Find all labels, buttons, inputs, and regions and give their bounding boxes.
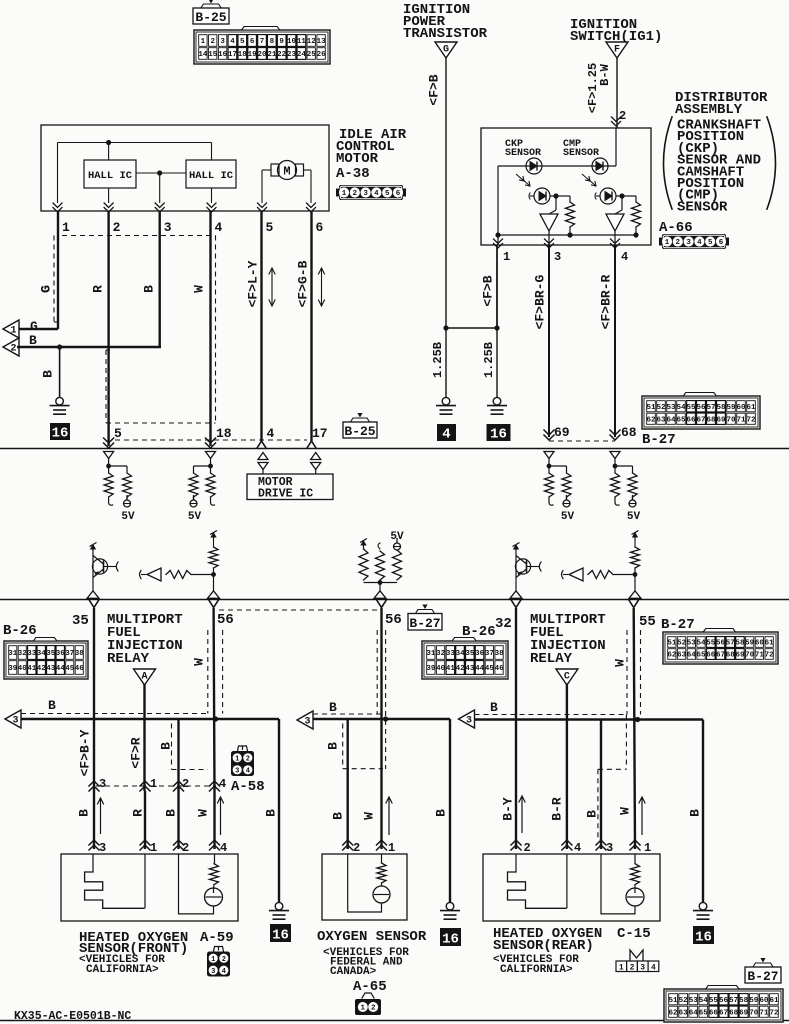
svg-text:60: 60 [736, 404, 746, 412]
svg-text:34: 34 [37, 650, 47, 658]
svg-text:35: 35 [72, 613, 89, 629]
svg-text:2: 2 [353, 841, 360, 855]
svg-text:3: 3 [99, 777, 106, 791]
svg-text:SENSOR: SENSOR [563, 148, 599, 159]
svg-text:51: 51 [646, 404, 656, 412]
svg-text:W: W [196, 809, 211, 817]
svg-text:2: 2 [524, 841, 531, 855]
svg-text:43: 43 [46, 665, 56, 673]
svg-text:B-R: B-R [550, 797, 565, 821]
svg-text:B: B [434, 809, 449, 817]
svg-text:64: 64 [689, 1009, 699, 1017]
svg-text:56: 56 [217, 612, 234, 628]
svg-text:G: G [39, 285, 54, 293]
svg-text:17: 17 [228, 51, 237, 59]
svg-text:4: 4 [697, 239, 702, 247]
svg-text:69: 69 [735, 652, 745, 660]
svg-text:59: 59 [749, 997, 759, 1005]
svg-text:B-W: B-W [598, 63, 612, 85]
svg-text:1: 1 [150, 841, 157, 855]
svg-text:<F>B: <F>B [427, 74, 442, 105]
svg-text:64: 64 [687, 652, 697, 660]
svg-text:20: 20 [257, 51, 267, 59]
svg-text:6: 6 [316, 220, 324, 235]
svg-text:34: 34 [456, 650, 466, 658]
svg-text:B: B [264, 809, 279, 817]
svg-text:26: 26 [317, 51, 327, 59]
svg-text:58: 58 [735, 640, 745, 648]
svg-text:41: 41 [27, 665, 37, 673]
svg-text:61: 61 [765, 640, 775, 648]
svg-text:11: 11 [297, 38, 307, 46]
svg-text:B: B [585, 810, 600, 818]
svg-text:45: 45 [65, 665, 75, 673]
svg-text:62: 62 [646, 416, 656, 424]
svg-text:1: 1 [388, 841, 395, 855]
svg-text:1: 1 [619, 964, 624, 973]
svg-text:C-15: C-15 [617, 926, 651, 942]
svg-text:4: 4 [374, 190, 379, 198]
svg-text:1: 1 [62, 220, 70, 235]
svg-text:RELAY: RELAY [530, 651, 573, 667]
svg-text:58: 58 [739, 997, 749, 1005]
svg-text:72: 72 [746, 416, 756, 424]
svg-text:W: W [613, 659, 628, 667]
svg-text:5: 5 [240, 38, 245, 46]
svg-text:4: 4 [442, 427, 450, 443]
svg-text:SENSOR: SENSOR [677, 199, 728, 215]
svg-text:3: 3 [164, 220, 172, 235]
svg-text:70: 70 [745, 652, 755, 660]
svg-text:3: 3 [12, 716, 18, 727]
svg-text:38: 38 [495, 650, 505, 658]
svg-text:5V: 5V [561, 511, 575, 523]
svg-text:B: B [329, 700, 337, 715]
svg-text:B-Y: B-Y [501, 797, 516, 821]
svg-text:44: 44 [56, 665, 66, 673]
svg-text:B: B [48, 698, 56, 713]
svg-text:5V: 5V [121, 511, 135, 523]
svg-text:51: 51 [667, 640, 677, 648]
svg-text:3: 3 [363, 190, 368, 198]
svg-text:5: 5 [708, 239, 713, 247]
svg-text:B-27: B-27 [409, 616, 440, 631]
svg-text:32: 32 [436, 650, 446, 658]
svg-text:1: 1 [211, 956, 215, 964]
svg-text:56: 56 [696, 404, 706, 412]
svg-text:63: 63 [677, 652, 687, 660]
svg-text:25: 25 [307, 51, 317, 59]
svg-text:37: 37 [65, 650, 74, 658]
svg-text:HALL IC: HALL IC [189, 170, 234, 182]
svg-text:<F>R: <F>R [129, 737, 144, 768]
svg-text:5V: 5V [627, 511, 641, 523]
svg-text:46: 46 [495, 665, 505, 673]
svg-text:71: 71 [755, 652, 765, 660]
svg-text:54: 54 [697, 640, 707, 648]
svg-text:63: 63 [679, 1009, 689, 1017]
svg-text:B-27: B-27 [747, 969, 778, 984]
svg-text:60: 60 [759, 997, 769, 1005]
svg-text:4: 4 [219, 777, 226, 791]
svg-text:58: 58 [716, 404, 726, 412]
svg-text:67: 67 [716, 652, 725, 660]
svg-text:53: 53 [689, 997, 699, 1005]
svg-text:54: 54 [676, 404, 686, 412]
svg-text:B: B [490, 700, 498, 715]
svg-text:A: A [141, 672, 147, 683]
svg-text:DRIVE IC: DRIVE IC [258, 488, 313, 501]
svg-text:62: 62 [669, 1009, 679, 1017]
svg-text:3: 3 [606, 841, 613, 855]
svg-text:A-38: A-38 [336, 166, 370, 182]
svg-text:24: 24 [297, 51, 307, 59]
svg-text:17: 17 [312, 426, 328, 441]
svg-text:70: 70 [749, 1009, 759, 1017]
svg-text:3: 3 [211, 968, 215, 976]
svg-text:B: B [142, 285, 157, 293]
svg-text:35: 35 [46, 650, 56, 658]
svg-text:HALL IC: HALL IC [88, 170, 133, 182]
svg-text:1: 1 [150, 777, 157, 791]
svg-text:46: 46 [75, 665, 85, 673]
svg-text:16: 16 [52, 426, 69, 442]
svg-text:39: 39 [426, 665, 436, 673]
svg-text:6: 6 [396, 190, 401, 198]
svg-text:7: 7 [260, 38, 265, 46]
svg-text:65: 65 [697, 652, 707, 660]
svg-text:8: 8 [270, 38, 275, 46]
svg-text:SENSOR: SENSOR [505, 148, 541, 159]
svg-text:4: 4 [230, 38, 235, 46]
svg-text:52: 52 [656, 404, 666, 412]
svg-text:R: R [131, 809, 146, 817]
svg-text:1: 1 [10, 326, 16, 337]
svg-text:42: 42 [456, 665, 466, 673]
svg-text:B-27: B-27 [642, 432, 676, 448]
svg-text:35: 35 [465, 650, 475, 658]
svg-text:<F>BR-R: <F>BR-R [599, 274, 614, 329]
svg-text:68: 68 [726, 652, 736, 660]
svg-text:55: 55 [706, 640, 716, 648]
svg-text:B-27: B-27 [661, 617, 695, 633]
svg-text:CALIFORNIA>: CALIFORNIA> [86, 964, 159, 976]
svg-text:MOTOR: MOTOR [336, 151, 379, 167]
svg-text:1: 1 [644, 841, 651, 855]
svg-text:69: 69 [739, 1009, 749, 1017]
svg-text:61: 61 [746, 404, 756, 412]
svg-text:60: 60 [755, 640, 765, 648]
svg-text:B: B [326, 742, 341, 750]
svg-text:6: 6 [250, 38, 255, 46]
svg-text:1: 1 [361, 1005, 366, 1013]
svg-text:CANADA>: CANADA> [330, 966, 377, 978]
svg-text:16: 16 [442, 932, 459, 948]
svg-text:<F>L-Y: <F>L-Y [246, 260, 261, 307]
svg-text:32: 32 [18, 650, 28, 658]
svg-text:66: 66 [706, 652, 716, 660]
svg-text:16: 16 [218, 51, 228, 59]
svg-text:4: 4 [222, 968, 226, 976]
svg-text:68: 68 [729, 1009, 739, 1017]
svg-text:KX35-AC-E0501B-NC: KX35-AC-E0501B-NC [14, 1010, 131, 1023]
svg-text:2: 2 [619, 109, 626, 123]
svg-text:72: 72 [765, 652, 775, 660]
svg-text:18: 18 [216, 426, 232, 441]
svg-text:2: 2 [676, 239, 681, 247]
svg-text:66: 66 [709, 1009, 719, 1017]
svg-text:71: 71 [759, 1009, 769, 1017]
svg-text:56: 56 [719, 997, 729, 1005]
svg-text:3: 3 [640, 964, 645, 973]
svg-text:2: 2 [371, 1005, 376, 1013]
svg-text:10: 10 [287, 38, 297, 46]
svg-text:2: 2 [630, 964, 635, 973]
svg-text:2: 2 [211, 38, 216, 46]
svg-text:14: 14 [198, 51, 208, 59]
svg-text:21: 21 [267, 51, 277, 59]
svg-text:B: B [164, 809, 179, 817]
svg-text:SENSOR(REAR): SENSOR(REAR) [493, 938, 594, 954]
svg-text:M: M [283, 165, 290, 179]
svg-text:<F>G-B: <F>G-B [296, 260, 311, 307]
svg-text:A-59: A-59 [200, 930, 234, 946]
svg-text:A-66: A-66 [659, 220, 693, 236]
svg-text:31: 31 [8, 650, 18, 658]
svg-text:2: 2 [353, 190, 358, 198]
svg-text:4: 4 [574, 841, 581, 855]
svg-text:6: 6 [719, 239, 724, 247]
svg-text:W: W [192, 658, 207, 666]
svg-text:16: 16 [490, 427, 507, 443]
svg-text:51: 51 [669, 997, 679, 1005]
svg-text:40: 40 [436, 665, 446, 673]
svg-text:36: 36 [56, 650, 66, 658]
svg-text:1: 1 [503, 250, 510, 264]
svg-text:4: 4 [215, 220, 223, 235]
svg-text:ASSEMBLY: ASSEMBLY [675, 102, 743, 118]
svg-text:72: 72 [769, 1009, 779, 1017]
svg-text:69: 69 [716, 416, 726, 424]
svg-text:2: 2 [10, 344, 16, 355]
svg-text:OXYGEN SENSOR: OXYGEN SENSOR [317, 929, 427, 945]
svg-text:68: 68 [706, 416, 716, 424]
svg-text:57: 57 [729, 997, 738, 1005]
svg-text:59: 59 [745, 640, 755, 648]
svg-text:59: 59 [726, 404, 736, 412]
svg-text:23: 23 [287, 51, 297, 59]
svg-text:65: 65 [699, 1009, 709, 1017]
svg-text:12: 12 [307, 38, 317, 46]
svg-text:64: 64 [666, 416, 676, 424]
svg-text:CALIFORNIA>: CALIFORNIA> [500, 964, 573, 976]
svg-text:1.25B: 1.25B [482, 342, 496, 378]
svg-text:56: 56 [716, 640, 726, 648]
svg-text:B: B [41, 370, 56, 378]
svg-text:<F>BR-G: <F>BR-G [533, 274, 548, 329]
svg-text:53: 53 [687, 640, 697, 648]
svg-text:G: G [443, 45, 449, 56]
svg-text:57: 57 [726, 640, 735, 648]
svg-text:3: 3 [99, 841, 106, 855]
svg-text:16: 16 [695, 930, 712, 946]
svg-text:42: 42 [37, 665, 47, 673]
svg-text:B-25: B-25 [344, 424, 375, 439]
svg-text:3: 3 [220, 38, 225, 46]
svg-text:4: 4 [220, 841, 227, 855]
svg-text:5: 5 [385, 190, 390, 198]
svg-text:RELAY: RELAY [107, 651, 150, 667]
svg-text:33: 33 [446, 650, 456, 658]
svg-text:45: 45 [485, 665, 495, 673]
svg-text:2: 2 [222, 956, 226, 964]
svg-text:4: 4 [246, 767, 250, 775]
svg-text:13: 13 [317, 38, 327, 46]
svg-text:B: B [77, 809, 92, 817]
svg-text:<F>B-Y: <F>B-Y [78, 729, 93, 776]
svg-text:1: 1 [201, 38, 206, 46]
svg-text:53: 53 [666, 404, 676, 412]
svg-text:55: 55 [709, 997, 719, 1005]
svg-text:G: G [30, 319, 38, 334]
svg-text:2: 2 [182, 841, 189, 855]
svg-text:3: 3 [235, 767, 239, 775]
svg-text:22: 22 [277, 51, 287, 59]
svg-text:1: 1 [342, 190, 347, 198]
svg-text:1.25B: 1.25B [431, 342, 445, 378]
svg-text:54: 54 [699, 997, 709, 1005]
svg-text:67: 67 [719, 1009, 728, 1017]
svg-text:39: 39 [8, 665, 18, 673]
svg-text:52: 52 [679, 997, 689, 1005]
svg-text:4: 4 [267, 426, 275, 441]
svg-text:A-58: A-58 [231, 779, 265, 795]
svg-text:2: 2 [246, 755, 250, 763]
svg-text:4: 4 [621, 250, 628, 264]
svg-text:B: B [688, 809, 703, 817]
svg-text:70: 70 [726, 416, 736, 424]
svg-text:W: W [192, 285, 207, 293]
svg-text:C: C [564, 672, 570, 683]
svg-text:5V: 5V [390, 531, 404, 543]
svg-text:5: 5 [114, 426, 122, 441]
svg-text:1: 1 [235, 755, 239, 763]
svg-text:61: 61 [769, 997, 779, 1005]
svg-text:3: 3 [686, 239, 691, 247]
svg-text:40: 40 [18, 665, 28, 673]
svg-text:B: B [331, 812, 346, 820]
svg-text:3: 3 [304, 717, 310, 728]
svg-text:55: 55 [639, 614, 656, 630]
svg-text:69: 69 [554, 425, 570, 440]
svg-text:36: 36 [475, 650, 485, 658]
svg-text:F: F [614, 45, 620, 56]
svg-text:4: 4 [651, 964, 656, 973]
svg-text:B: B [159, 742, 174, 750]
svg-text:71: 71 [736, 416, 746, 424]
svg-text:19: 19 [248, 51, 258, 59]
svg-text:55: 55 [686, 404, 696, 412]
svg-text:5V: 5V [188, 511, 202, 523]
svg-text:5: 5 [266, 220, 274, 235]
svg-text:32: 32 [495, 616, 512, 632]
svg-text:9: 9 [279, 38, 284, 46]
svg-text:R: R [91, 285, 106, 293]
svg-text:41: 41 [446, 665, 456, 673]
svg-text:W: W [362, 812, 377, 820]
svg-text:B: B [29, 333, 37, 348]
svg-text:TRANSISTOR: TRANSISTOR [403, 26, 488, 42]
svg-text:43: 43 [465, 665, 475, 673]
svg-text:15: 15 [208, 51, 218, 59]
svg-text:67: 67 [696, 416, 705, 424]
svg-text:56: 56 [385, 612, 402, 628]
svg-text:B-26: B-26 [3, 623, 37, 639]
svg-text:37: 37 [485, 650, 494, 658]
svg-text:38: 38 [75, 650, 85, 658]
svg-text:33: 33 [27, 650, 37, 658]
svg-text:31: 31 [426, 650, 436, 658]
svg-text:18: 18 [238, 51, 248, 59]
svg-text:<F>B: <F>B [481, 275, 496, 306]
svg-text:3: 3 [554, 250, 561, 264]
svg-text:2: 2 [182, 777, 189, 791]
svg-text:B-25: B-25 [195, 10, 226, 25]
svg-text:57: 57 [706, 404, 715, 412]
svg-text:62: 62 [667, 652, 677, 660]
svg-text:16: 16 [272, 928, 289, 944]
svg-text:68: 68 [621, 425, 637, 440]
svg-text:2: 2 [113, 220, 121, 235]
svg-text:52: 52 [677, 640, 687, 648]
svg-text:66: 66 [686, 416, 696, 424]
svg-text:3: 3 [466, 716, 472, 727]
svg-text:W: W [618, 807, 633, 815]
svg-text:44: 44 [475, 665, 485, 673]
svg-text:1: 1 [665, 239, 670, 247]
svg-text:65: 65 [676, 416, 686, 424]
svg-text:63: 63 [656, 416, 666, 424]
